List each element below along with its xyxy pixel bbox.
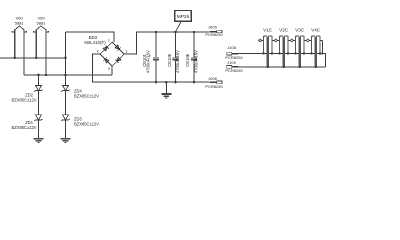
svg-text:J109: J109 xyxy=(227,60,236,65)
svg-text:4700uF/16V: 4700uF/16V xyxy=(193,50,198,73)
svg-text:J006: J006 xyxy=(208,76,217,81)
svg-text:CE105: CE105 xyxy=(185,53,190,66)
svg-text:BZX85C±12V: BZX85C±12V xyxy=(11,98,36,103)
svg-text:2: 2 xyxy=(126,50,128,54)
svg-text:4: 4 xyxy=(97,50,99,54)
svg-text:BZX85C±12V: BZX85C±12V xyxy=(74,94,99,99)
svg-text:1: 1 xyxy=(108,38,110,42)
svg-text:CE102: CE102 xyxy=(167,53,172,66)
svg-text:J108: J108 xyxy=(227,45,236,50)
svg-text:PCR8250: PCR8250 xyxy=(205,32,223,37)
svg-text:PCR8250: PCR8250 xyxy=(205,84,223,89)
svg-text:KBL410(F): KBL410(F) xyxy=(84,40,106,45)
svg-text:5881: 5881 xyxy=(15,20,25,25)
svg-text:BZX85C±12V: BZX85C±12V xyxy=(74,122,99,127)
svg-text:J005: J005 xyxy=(208,25,217,30)
svg-text:V3C: V3C xyxy=(295,28,305,33)
svg-text:3: 3 xyxy=(108,67,110,71)
svg-text:V1C: V1C xyxy=(263,28,273,33)
svg-text:5881: 5881 xyxy=(37,20,47,25)
svg-text:4700uF/16V: 4700uF/16V xyxy=(175,50,180,73)
svg-text:V4C: V4C xyxy=(311,28,321,33)
svg-text:V2C: V2C xyxy=(279,28,289,33)
svg-text:4700uF/16V: 4700uF/16V xyxy=(145,50,150,73)
svg-text:MP26: MP26 xyxy=(177,14,190,20)
svg-text:PCR8250: PCR8250 xyxy=(225,68,243,73)
svg-text:BZX85C±12V: BZX85C±12V xyxy=(11,125,36,130)
